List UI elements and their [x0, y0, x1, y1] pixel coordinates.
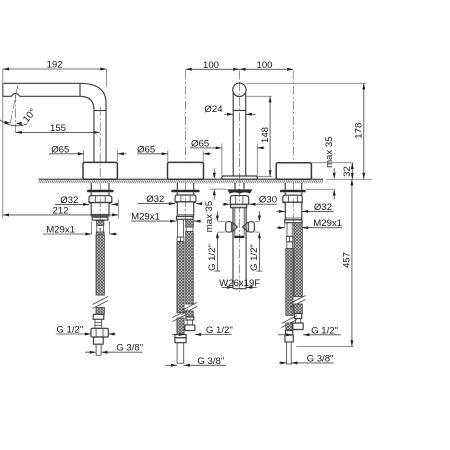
label G12 second unit: [172, 334, 185, 336]
second right braided hose: [186, 232, 194, 305]
svg-text:100: 100: [256, 60, 272, 71]
dim 212: [3, 214, 119, 216]
middle tee body bottom: [233, 288, 246, 290]
svg-text:178: 178: [354, 123, 365, 139]
svg-text:155: 155: [50, 123, 66, 134]
second mounting flange: [171, 190, 199, 193]
svg-text:192: 192: [47, 60, 63, 71]
svg-text:M29x1: M29x1: [131, 212, 160, 223]
joystick centerline: [238, 71, 240, 81]
second hex nut: [175, 195, 196, 202]
dim O30 middle: [223, 203, 230, 205]
right G12 collar: [294, 314, 301, 319]
second collar: [177, 216, 194, 219]
svg-text:Ø65: Ø65: [51, 144, 69, 155]
dim O24: [225, 113, 234, 115]
svg-text:Ø32: Ø32: [60, 195, 78, 206]
svg-text:G 3/8": G 3/8": [197, 356, 224, 367]
svg-text:G 1/2": G 1/2": [311, 325, 338, 336]
right mounting flange: [280, 190, 306, 193]
dim max35 right: [306, 188, 336, 190]
spout elbow seam: [79, 83, 81, 96]
svg-text:212: 212: [52, 205, 68, 216]
left braided hose lower: [96, 308, 104, 315]
spout centerline: [99, 107, 101, 224]
svg-text:Ø30: Ø30: [259, 195, 277, 206]
countertop surface with hatching: [39, 179, 324, 183]
second nut skirt: [175, 202, 196, 217]
dim 155: [16, 131, 100, 133]
label G38 second unit: [165, 364, 177, 366]
dim M29x1 left extension lines: [91, 222, 93, 234]
second right hose sleeve: [186, 227, 193, 232]
joystick shaft: [232, 93, 234, 176]
dim 32: [351, 163, 353, 179]
left hose tube: [97, 225, 104, 232]
svg-text:457: 457: [342, 252, 353, 268]
second right hose crimp: [186, 219, 194, 227]
svg-text:Ø32: Ø32: [314, 202, 332, 213]
svg-text:W26x19F: W26x19F: [219, 278, 260, 289]
left collar: [92, 217, 108, 220]
dim G12 middle left arm: [217, 221, 225, 223]
dim 10 deg arc: [0, 120, 27, 126]
dim O32 second: [138, 203, 175, 205]
left G12 threads: [95, 319, 102, 328]
dim O65 middle extension lines: [221, 144, 223, 176]
svg-text:max 35: max 35: [204, 201, 215, 232]
second right G12 collar: [186, 317, 194, 320]
right left-hose fitting: [286, 236, 292, 242]
spout base block: [83, 162, 117, 179]
dim 178 extension line: [246, 82, 366, 84]
left nut skirt: [89, 203, 112, 216]
middle right cone: [243, 222, 249, 232]
spout elbow outer curve: [80, 83, 106, 103]
right G38 hex: [285, 335, 293, 342]
dim 148: [269, 96, 271, 176]
dim W26x19F: [222, 286, 233, 288]
middle right inlet arm: [248, 222, 254, 232]
label G38 right unit: [279, 362, 287, 364]
right right braided hose: [294, 223, 303, 297]
left mounting flange: [87, 190, 114, 193]
svg-text:G 1/2": G 1/2": [206, 325, 233, 336]
svg-text:148: 148: [260, 127, 271, 143]
second right G12 hex nut: [185, 325, 195, 331]
dim 32 extension line: [312, 162, 354, 164]
spout aerator notch: [12, 94, 20, 97]
svg-text:G 3/8": G 3/8": [116, 343, 143, 354]
left braided hose upper: [96, 235, 104, 295]
right left-hose sleeve: [287, 242, 293, 249]
second valve base block: [168, 162, 204, 179]
second left braided hose: [177, 242, 184, 313]
dim 457 extension line bottom: [296, 346, 353, 348]
right nut skirt: [283, 202, 303, 220]
dim O65 left: [49, 153, 84, 155]
right left-hose tube: [287, 223, 292, 237]
middle left cone: [232, 222, 238, 232]
svg-text:100: 100: [203, 60, 219, 71]
dim G12 middle right arm: [255, 221, 260, 223]
middle nut: [230, 196, 248, 205]
dim O65 second extension lines: [167, 151, 169, 162]
second shank mid: [176, 192, 178, 195]
svg-text:G 1/2": G 1/2": [56, 325, 83, 336]
dim 100 dims: [186, 68, 294, 70]
left G38 tube: [96, 344, 101, 355]
dim O32 left: [55, 203, 89, 205]
svg-text:M29x1: M29x1: [46, 225, 75, 236]
second left G38 hex: [175, 338, 186, 343]
dim max35 middle: [210, 188, 227, 190]
left shank mid: [90, 192, 92, 195]
dim O32 right: [277, 210, 285, 212]
middle toothed flange: [227, 189, 252, 193]
dim M29x1 right extension lines: [284, 223, 286, 228]
right left-hose break mark: [282, 316, 298, 328]
left hose crimp top: [97, 221, 104, 226]
spout jet vertical reference dash line: [15, 94, 17, 136]
svg-text:G 1/2": G 1/2": [207, 244, 218, 271]
second left hose break mark: [173, 310, 189, 322]
second left G38 tube: [177, 343, 184, 364]
dim M29x1 second: [131, 220, 176, 222]
second unit centerline: [185, 71, 187, 163]
left G12 hex nut: [91, 328, 108, 337]
left G12 collar: [93, 314, 104, 319]
middle left inlet arm: [226, 222, 232, 232]
svg-text:max 35: max 35: [324, 136, 335, 167]
right shank mid: [284, 192, 286, 195]
spout vertical pipe: [93, 110, 95, 162]
middle tee body: [232, 208, 234, 289]
right shank below counter: [284, 183, 286, 190]
dim 148 extension lines: [247, 95, 272, 97]
right hex nut: [283, 195, 303, 202]
left unit centerline lower: [99, 228, 101, 236]
right G12 threads: [296, 319, 301, 324]
left hex nut: [89, 196, 112, 203]
second left hose fitting: [177, 237, 184, 242]
second right hose break mark: [182, 303, 198, 315]
left hose break mark: [93, 297, 109, 309]
right G12 hex nut: [292, 323, 303, 330]
svg-text:32: 32: [342, 166, 353, 177]
label G12 left unit: [56, 333, 91, 335]
joystick shaft seam: [233, 110, 246, 112]
spout horizontal arm: [3, 83, 80, 96]
left hose crimp bottom: [96, 232, 104, 235]
left shank below counter: [90, 183, 92, 190]
dim O65 second: [138, 153, 168, 155]
right unit centerline: [292, 71, 294, 163]
dim 457: [351, 179, 353, 346]
dim O65 left extension lines: [83, 151, 85, 162]
second left G38 collar: [175, 335, 186, 338]
right right-hose break mark: [290, 296, 306, 308]
right left braided hose: [286, 248, 293, 315]
svg-text:G 1/2": G 1/2": [249, 244, 260, 271]
spout elbow inner curve: [80, 96, 94, 110]
right collar: [285, 220, 302, 223]
right G38 collar: [285, 331, 292, 336]
dim M29x1 right: [277, 227, 285, 229]
spout pipe seam: [94, 110, 106, 112]
dim M29x1 second extension lines: [175, 220, 177, 222]
dim 178: [363, 83, 365, 179]
middle bottom plate: [234, 236, 244, 238]
svg-text:Ø65: Ø65: [191, 138, 209, 149]
dim M29x1 left: [43, 233, 92, 235]
label G38 left unit: [85, 351, 96, 353]
second shank below counter: [176, 183, 178, 190]
dim 192 extension lines: [2, 69, 4, 218]
joystick escutcheon plate: [222, 176, 257, 179]
right G38 tube: [287, 342, 292, 364]
label G12 right unit: [278, 334, 292, 336]
second left hose tube: [178, 219, 184, 237]
svg-text:Ø24: Ø24: [204, 104, 223, 115]
svg-text:Ø65: Ø65: [137, 144, 155, 155]
middle collar: [231, 204, 247, 207]
svg-text:M29x1: M29x1: [313, 218, 342, 229]
dim 212 extension right: [117, 200, 119, 220]
spout jet axis 10 deg dash line: [10, 85, 18, 124]
dim 192: [3, 68, 107, 70]
svg-text:Ø32: Ø32: [146, 194, 164, 205]
right valve base block: [276, 163, 311, 179]
dim O65 middle: [190, 147, 222, 149]
second right G12 threads: [187, 320, 192, 325]
joystick knob: [233, 83, 246, 96]
middle shank below counter: [234, 183, 236, 189]
svg-text:G 3/8": G 3/8": [307, 353, 334, 364]
countertop extension line right: [326, 178, 372, 180]
left G38 hex: [94, 337, 104, 344]
